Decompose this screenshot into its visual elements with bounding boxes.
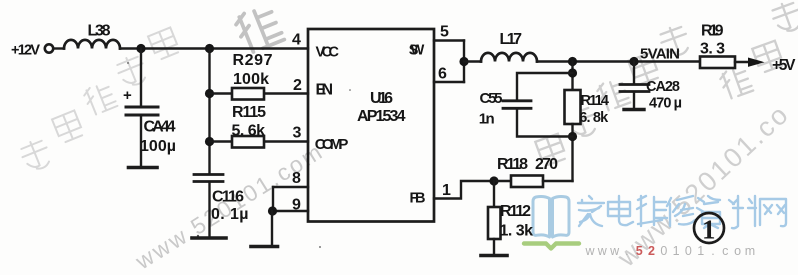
node junction dot pin9 — [268, 206, 277, 215]
svg-text:1: 1 — [697, 244, 704, 258]
svg-text:270: 270 — [535, 156, 558, 173]
watermark diagonal run right-mid: gray CJK chars — [535, 0, 798, 166]
wire pin8 stub — [273, 186, 308, 188]
char jia — [578, 196, 604, 226]
svg-text:L38: L38 — [88, 23, 111, 40]
svg-text:100k: 100k — [233, 71, 269, 88]
ground under CA28 — [624, 108, 644, 111]
node junction dot D — [205, 137, 214, 146]
wire pin5 SW — [434, 39, 464, 41]
svg-text:SW: SW — [409, 42, 425, 58]
svg-text:3: 3 — [293, 125, 302, 142]
char dian — [608, 196, 633, 225]
wire R118 left lead — [494, 180, 511, 182]
arrow +5V output — [748, 58, 765, 67]
wire pin5-pin6 link — [463, 41, 465, 83]
ground under C116 — [192, 236, 226, 240]
node junction dot 5VAIN — [629, 57, 638, 66]
node junction dot C — [205, 89, 214, 98]
char xiu — [667, 196, 695, 226]
wire R297 leads — [210, 92, 309, 94]
svg-text:CA44: CA44 — [144, 119, 176, 136]
svg-text:w: w — [584, 244, 595, 258]
node junction dot C55 top — [568, 68, 577, 77]
svg-text:VCC: VCC — [316, 45, 340, 61]
wire R114 column lower — [571, 124, 573, 181]
inductor L38 — [64, 40, 120, 49]
wire terminal to L38 — [54, 47, 65, 49]
svg-text:470 µ: 470 µ — [649, 96, 682, 112]
svg-text:100µ: 100µ — [140, 138, 176, 155]
svg-text:5: 5 — [636, 244, 643, 258]
svg-text:0. 1µ: 0. 1µ — [211, 206, 249, 223]
wire SW node to L17 — [464, 60, 481, 62]
resistor R19 — [700, 57, 735, 69]
wire CA44 branch — [140, 49, 142, 106]
svg-text:2: 2 — [293, 77, 302, 94]
wire R112 to ground — [493, 239, 495, 254]
wire R115 leads — [210, 140, 309, 142]
svg-text:CA28: CA28 — [646, 79, 680, 95]
capacitor CA28 — [620, 85, 649, 92]
svg-text:5VAIN: 5VAIN — [640, 46, 680, 63]
wire C55 bottom branch — [517, 110, 573, 137]
char liao — [729, 196, 756, 228]
svg-text:+: + — [123, 87, 132, 104]
svg-text:+5V: +5V — [772, 57, 796, 74]
svg-text:.: . — [625, 244, 628, 258]
svg-text:c: c — [722, 244, 728, 258]
ground under pin9 — [251, 245, 278, 249]
wire R19 to arrow — [735, 61, 749, 63]
watermark logo text (script CJK) — [578, 196, 786, 228]
capacitor CA44 — [126, 107, 158, 115]
svg-text:COMP: COMP — [315, 136, 349, 153]
svg-text:1n: 1n — [479, 111, 495, 128]
svg-text:9: 9 — [292, 197, 301, 214]
char zi — [697, 196, 720, 228]
resistor R115 — [232, 136, 264, 148]
node junction dot B — [205, 44, 214, 53]
svg-text:w: w — [597, 244, 608, 258]
svg-text:o: o — [734, 244, 741, 258]
op-amp U16 AP1534 IC body — [308, 29, 434, 222]
resistor R114 — [565, 90, 581, 124]
svg-text:AP1534: AP1534 — [357, 108, 406, 125]
watermark large CJK glyph top-center — [233, 3, 284, 54]
svg-text:R112: R112 — [500, 203, 531, 220]
svg-text:FB: FB — [410, 190, 426, 206]
svg-text:L17: L17 — [500, 31, 523, 48]
svg-text:+12V: +12V — [11, 43, 40, 59]
node junction dot C55 bottom — [568, 132, 577, 141]
page number circled 1 — [694, 213, 724, 245]
inductor L17 — [481, 53, 537, 62]
watermark logo book icon — [524, 197, 579, 249]
wire pin9 to ground — [271, 211, 273, 245]
capacitor C55 — [503, 101, 531, 109]
scan speckles — [127, 62, 351, 248]
svg-text:1. 3k: 1. 3k — [500, 223, 534, 240]
wire R112 top lead — [493, 181, 495, 207]
ground under R112 — [481, 254, 507, 258]
watermark diagonal run left: gray CJK chars — [18, 27, 180, 173]
wire C55 top branch — [517, 73, 573, 100]
ground under CA44 — [129, 166, 158, 170]
capacitor C116 — [194, 175, 223, 182]
char wang — [760, 199, 786, 226]
svg-text:1: 1 — [702, 215, 716, 245]
resistor R118 — [511, 176, 543, 188]
svg-text:R114: R114 — [581, 93, 610, 109]
wire L38 to pin4 VCC — [120, 47, 308, 49]
svg-text:R115: R115 — [232, 104, 266, 121]
wire pin9 stub — [273, 210, 308, 212]
svg-text:m: m — [745, 244, 755, 258]
node junction dot A — [136, 44, 145, 53]
wire pin8-pin9 link — [272, 187, 274, 211]
svg-text:2: 2 — [648, 244, 655, 258]
svg-text:5: 5 — [440, 24, 449, 41]
svg-text:EN: EN — [316, 81, 334, 98]
terminal +12V — [45, 44, 53, 52]
watermark logo url www.520101.com — [584, 244, 755, 258]
svg-text:0: 0 — [660, 244, 667, 258]
svg-text:4: 4 — [292, 32, 301, 49]
svg-text:w: w — [609, 244, 620, 258]
wire R118 right lead to R114 column — [543, 180, 573, 182]
wire FB pin1 — [434, 181, 494, 199]
wire pin6 SW — [434, 81, 464, 83]
svg-text:R297: R297 — [233, 52, 273, 69]
svg-text:1: 1 — [673, 244, 680, 258]
wire L17 to R19 — [537, 60, 700, 62]
svg-text:R118: R118 — [497, 156, 528, 173]
svg-text:R19: R19 — [701, 23, 724, 40]
wire R114 column upper — [571, 62, 573, 91]
resistor R112 — [488, 207, 501, 239]
wire CA28 to ground — [633, 93, 635, 109]
svg-text:1: 1 — [442, 182, 451, 199]
node SW junction dot — [459, 57, 468, 66]
wire bias rail — [208, 49, 210, 174]
svg-text:.: . — [711, 244, 714, 258]
svg-text:0: 0 — [685, 244, 692, 258]
svg-text:6: 6 — [438, 66, 447, 83]
svg-text:5. 6k: 5. 6k — [232, 123, 266, 140]
svg-text:8: 8 — [292, 170, 301, 187]
svg-text:C55: C55 — [480, 90, 503, 107]
svg-text:U16: U16 — [370, 90, 393, 107]
node junction dot R114 top — [568, 57, 577, 66]
resistor R297 — [232, 88, 264, 100]
svg-text:C116: C116 — [212, 189, 244, 206]
wire CA44 to ground — [140, 117, 142, 167]
wire C116 to ground — [208, 183, 210, 237]
wire CA28 branch — [633, 62, 635, 84]
char wei — [637, 196, 667, 226]
node junction dot FB — [489, 176, 498, 185]
svg-text:3. 3: 3. 3 — [700, 40, 725, 57]
svg-text:6. 8k: 6. 8k — [579, 110, 609, 126]
